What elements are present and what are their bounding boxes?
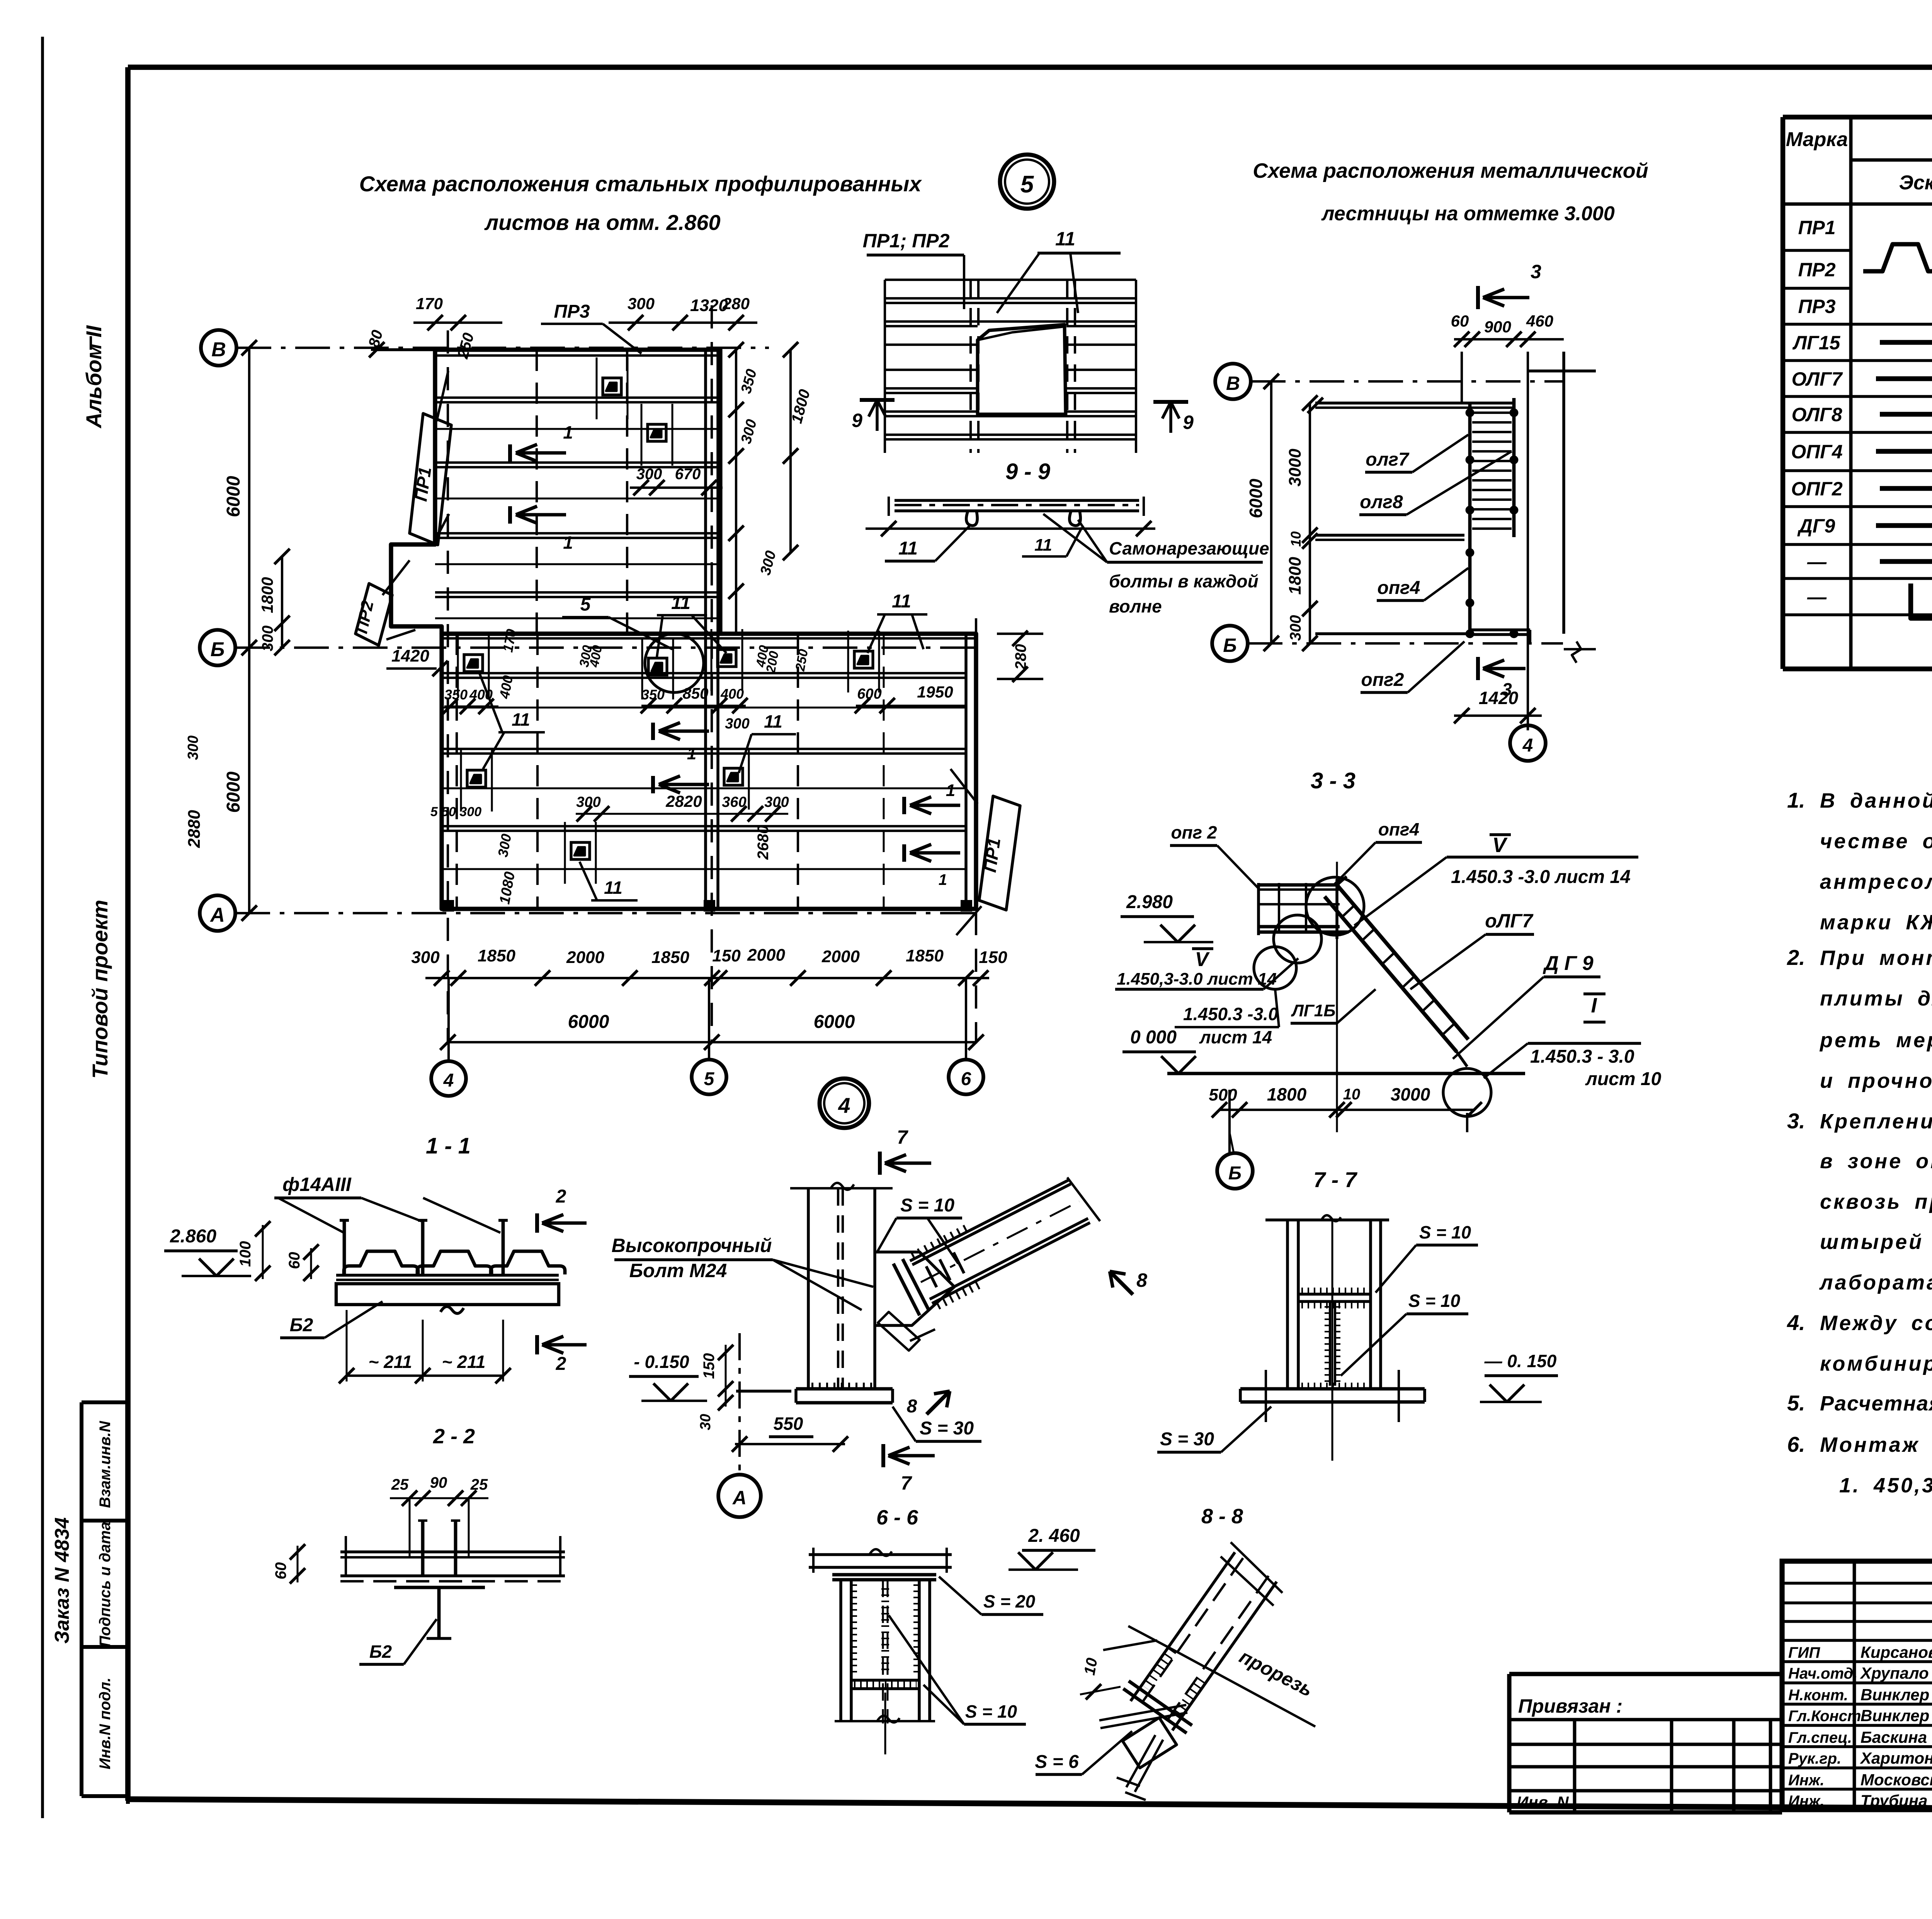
label 11 with leaders (detail5) [997,228,1121,313]
bottom dim chain of plan [411,946,1007,986]
upper plan top edge double [377,350,720,356]
svg-text:1.450.3 -3.0: 1.450.3 -3.0 [1183,1004,1278,1024]
stairs top dims 60 900 460 [1451,312,1564,347]
svg-text:Между собой / вдоль го: Между собой / вдоль гофра/ настилы соеди… [1820,1312,1932,1335]
title line 2 [484,210,720,235]
stairs axis line В [1251,380,1563,383]
column bubbles 4 5 6 [431,978,466,1096]
title block outer [1782,1561,1932,1810]
label 11 top of lower plan [657,593,726,657]
label опг2 [1361,641,1464,692]
label 11 right top of lower plan [867,591,927,653]
svg-text:Н.конт.: Н.конт. [1788,1687,1848,1704]
margin stamp boxes [82,1402,128,1804]
svg-text:60: 60 [1451,312,1469,330]
stairs column bubble 4 [1510,725,1546,761]
svg-text:Баскина: Баскина [1861,1728,1927,1746]
svg-text:сквозь профнастил „ втавр ": сквозь профнастил „ втавр " анкерных шты… [1820,1190,1932,1213]
svg-text:9 - 9: 9 - 9 [1005,459,1050,484]
table column марка values [1791,217,1843,608]
svg-text:1.450.3 - 3.0: 1.450.3 - 3.0 [1530,1046,1634,1067]
ПР1 parallelogram label upper [410,371,451,545]
svg-text:Б: Б [1223,635,1236,656]
svg-text:500: 500 [1209,1085,1237,1104]
left dim chain 6000/6000 [223,340,257,921]
7-7 S=30 label [1157,1407,1271,1452]
svg-text:6000: 6000 [1246,478,1266,518]
svg-text:антресоли, которая разраб: антресоли, которая разработана в чертежа… [1820,870,1932,893]
3-3 stair stringer [1325,876,1468,1067]
svg-text:6.: 6. [1787,1432,1805,1456]
node4 elevation -0.150 [629,1352,707,1401]
svg-text:300: 300 [185,735,201,760]
6-6 S=10 label [889,1615,1026,1724]
1-1 Б2 label [280,1301,383,1338]
node4 base plate [736,1387,893,1403]
label олг7 [1365,435,1468,472]
svg-text:ЛГ1Б: ЛГ1Б [1291,1001,1336,1020]
8-8 прорезь label [1128,1626,1316,1727]
svg-text:ОЛГ7: ОЛГ7 [1791,368,1843,390]
svg-text:2820: 2820 [665,792,702,810]
svg-text:1850: 1850 [478,946,515,965]
svg-text:Инв.N подл.: Инв.N подл. [97,1677,114,1769]
sheet outer trim line (left) [41,37,44,1818]
svg-text:1: 1 [563,532,573,553]
margin label Заказ № 4834 [51,1517,73,1643]
svg-text:Марка: Марка [1786,128,1848,151]
stairs dim chain 3000/10/1800/300 [1286,395,1318,651]
svg-text:реть мероприятия обеспечив: реть мероприятия обеспечивающие ее устой… [1819,1029,1932,1052]
node4 8 arrows [1110,1269,1147,1295]
svg-text:Самонарезающие: Самонарезающие [1109,538,1269,558]
node4 dim 150 30 [697,1345,733,1430]
svg-text:опг2: опг2 [1361,670,1404,690]
svg-text:штырей осуществляется свар: штырей осуществляется сварочным пистолет… [1820,1230,1932,1254]
3-3 detail circles [1254,877,1364,989]
upper plan sheet joint dashed verticals [537,350,627,634]
8-8 S=6 label [1035,1731,1132,1774]
svg-text:Эскиз: Эскиз [1899,172,1932,194]
axis circle В [201,330,236,366]
svg-text:1850: 1850 [906,946,944,965]
svg-text:Гл.спец.: Гл.спец. [1788,1729,1852,1746]
svg-text:1: 1 [939,871,947,888]
label 11 under beam [1022,527,1082,556]
upper plan outline [391,350,720,634]
svg-text:11: 11 [764,711,782,732]
2-2 dim 60 [272,1544,305,1584]
svg-text:3 - 3: 3 - 3 [1311,768,1355,793]
svg-text:В: В [1226,373,1240,394]
svg-text:5.: 5. [1787,1391,1805,1415]
node4 S=10 label [877,1195,962,1264]
svg-text:Монтаж металлических лестни: Монтаж металлических лестниц выполнять п… [1820,1433,1932,1456]
svg-text:Винклер: Винклер [1861,1706,1929,1725]
stairs left dim 6000 [1246,374,1279,651]
upper plan beam line at col5 [706,350,718,634]
svg-text:170: 170 [416,294,443,313]
svg-text:60: 60 [286,1252,303,1269]
svg-text:V: V [1195,948,1210,971]
stairs section mark 3 bottom [1478,657,1526,699]
svg-text:лист 10: лист 10 [1585,1069,1662,1089]
svg-text:1: 1 [946,781,955,800]
node4 section mark 7 top [880,1126,931,1175]
svg-text:60: 60 [272,1562,289,1580]
8-8 dim 10 [1080,1640,1157,1700]
lower plan outline [442,634,976,909]
svg-text:S = 10: S = 10 [1419,1222,1471,1242]
ПР3 label [541,301,641,354]
svg-text:Б2: Б2 [290,1315,313,1335]
2-2 Б2 label [359,1619,437,1664]
node4 section mark 7 bottom [883,1444,935,1494]
svg-text:850: 850 [683,685,709,702]
lower plan sheet joint dashed verticals [457,634,884,909]
svg-text:ДГ9: ДГ9 [1797,515,1835,537]
svg-text:9: 9 [1183,412,1194,433]
ПР2 parallelogram label [352,560,415,645]
label ПР1;ПР2 [863,230,964,309]
svg-text:150: 150 [701,1353,718,1379]
axis line А [235,912,981,914]
lower plan right edge double [964,634,968,909]
label 2-2 [433,1425,475,1448]
svg-text:1: 1 [563,422,573,442]
svg-text:25: 25 [470,1476,488,1493]
svg-text:Подпись и дата: Подпись и дата [97,1522,114,1647]
svg-text:S = 10: S = 10 [900,1195,954,1216]
svg-text:1. 450,3-3 выпускам 0 и 2: 1. 450,3-3 выпускам 0 и 2 части I , II [1839,1474,1932,1497]
stairs section mark 3 top [1478,261,1541,309]
svg-text:При монтаже профнастила и: При монтаже профнастила и устройстве мон… [1820,946,1932,970]
svg-text:1.450.3 -3.0 лист 14: 1.450.3 -3.0 лист 14 [1451,867,1631,887]
margin label Подпись и дата [97,1522,114,1647]
3-3 опг2 label [1170,822,1259,889]
svg-text:300: 300 [725,716,749,732]
svg-text:честве опалубки для монолит: честве опалубки для монолитной плиты пер… [1820,830,1932,853]
stairs dim 1420 [1454,688,1542,723]
dim 300 670 inside plan [630,466,723,495]
left dim 2880 [185,735,204,848]
svg-text:ПР3: ПР3 [554,301,590,322]
svg-text:—: — [1807,586,1827,608]
title line 2 [1321,202,1615,225]
svg-text:6 - 6: 6 - 6 [876,1506,918,1529]
svg-text:6000: 6000 [223,476,244,517]
label 11 leader left [885,526,970,561]
1-1 elevation 2.860 [164,1226,251,1276]
table эскиз: bar lines rows 4-10 [1876,342,1932,561]
stairs right break mark [1564,641,1596,663]
column axis 5 (dashed) [711,305,713,1043]
3-3 ЛГ15 label [1291,989,1376,1023]
3-3 bottom circle [1443,1068,1491,1116]
svg-text:плиты для консольной части: плиты для консольной части профнастила, … [1820,987,1932,1010]
title: схема расположения металлической лестницы line 1 [1253,159,1648,182]
svg-text:11: 11 [898,538,918,559]
1-1 profiled sheet section [336,1220,565,1313]
1-1 dim 100 60 [237,1221,319,1281]
svg-text:6: 6 [961,1069,971,1089]
svg-text:1950: 1950 [917,683,953,701]
svg-text:олг7: олг7 [1366,449,1410,470]
svg-text:Д Г 9: Д Г 9 [1543,952,1593,975]
svg-text:комбинированными заклепками: комбинированными заклепками по ОСТ 34- 1… [1820,1352,1932,1375]
stairs dots [1466,409,1517,637]
3-3 platform [1259,879,1349,939]
svg-text:Крепление и аннеровку про: Крепление и аннеровку профнастила произв… [1820,1110,1932,1133]
svg-text:6000: 6000 [814,1012,855,1032]
3-3 elevation 0.000 [1122,1027,1196,1073]
section marks 1 in upper plan [510,422,573,462]
svg-text:1800: 1800 [258,577,276,613]
svg-text:2880: 2880 [185,810,204,848]
margin label Взам. инв.№ [97,1421,114,1508]
lower plan top edge double [442,637,976,640]
svg-text:S = 10: S = 10 [1408,1291,1461,1311]
svg-text:150: 150 [712,946,741,965]
svg-text:олг8: олг8 [1360,492,1403,512]
column base squares [444,901,971,910]
detail 5 plan grid [885,280,1136,453]
svg-text:2000: 2000 [566,948,604,967]
svg-text:300: 300 [411,948,440,967]
svg-text:10: 10 [1081,1657,1101,1676]
svg-text:Гл.Конст.: Гл.Конст. [1788,1708,1865,1725]
label 1-1 [426,1133,471,1159]
label 11 bottom [580,862,638,900]
stairs axis line Б [1248,642,1563,645]
svg-text:ОЛГ8: ОЛГ8 [1791,404,1842,425]
svg-text:1 - 1: 1 - 1 [426,1133,471,1159]
svg-text:2000: 2000 [821,947,860,966]
axis circle А [200,895,235,931]
svg-text:Болт М24: Болт М24 [629,1260,727,1281]
stairs axis circle Б [1212,626,1248,661]
svg-text:2680: 2680 [755,825,772,860]
svg-text:1420: 1420 [1479,688,1519,708]
svg-text:болты в каждой: болты в каждой [1109,571,1259,591]
svg-text:S = 20: S = 20 [983,1591,1036,1611]
svg-text:Взам.инв.N: Взам.инв.N [97,1421,114,1508]
svg-text:2000: 2000 [747,946,785,965]
svg-text:лаборатарии НИИЖБ.: лаборатарии НИИЖБ. [1819,1271,1932,1294]
svg-text:11: 11 [1034,536,1052,555]
margin label Альбом II [82,325,106,429]
section marks 1 in lower plan [653,723,709,763]
svg-text:~ 211: ~ 211 [369,1352,412,1372]
svg-text:11: 11 [671,593,690,613]
label 11 left mid [479,672,545,769]
svg-text:Харитонов: Харитонов [1860,1749,1932,1767]
svg-text:5: 5 [704,1069,715,1089]
dim 1420 left of lower plan [386,646,448,676]
svg-text:~ 211: ~ 211 [442,1352,486,1372]
svg-text:3.: 3. [1787,1109,1805,1133]
3-3 dim chain 500 1800 10 3000 [1209,862,1482,1155]
svg-text:Б: Б [1228,1163,1242,1184]
svg-text:ОПГ2: ОПГ2 [1791,478,1843,500]
8-8 diagonal member [1099,1542,1282,1800]
svg-text:670: 670 [675,466,701,483]
svg-text:опг 2: опг 2 [1171,822,1217,842]
svg-text:280: 280 [722,294,750,313]
axis circle Б [200,630,235,665]
lower plan seam lines [442,673,966,869]
stairs treads [1472,413,1512,529]
label 11 mid [739,711,796,773]
svg-text:2: 2 [556,1186,566,1207]
svg-text:А: А [209,904,225,926]
svg-text:6000: 6000 [568,1012,609,1032]
svg-text:лестницы на отметке 3.000: лестницы на отметке 3.000 [1321,202,1615,225]
svg-text:300: 300 [259,626,276,652]
section arrows 9 [852,400,895,431]
svg-text:5: 5 [1020,171,1034,198]
7-7 -0.150 elevation [1480,1351,1558,1402]
plan top dims [365,294,757,361]
svg-text:2 - 2: 2 - 2 [433,1425,475,1448]
svg-text:V: V [1492,834,1508,857]
svg-text:S = 10: S = 10 [965,1701,1017,1722]
svg-text:опг4: опг4 [1378,819,1419,839]
7-7 column drawing [1240,1215,1425,1461]
label олг8 [1359,451,1512,515]
svg-text:ПР2: ПР2 [1798,259,1835,281]
svg-text:Альбом II: Альбом II [82,325,106,429]
svg-text:2. 460: 2. 460 [1028,1526,1080,1546]
svg-text:1800: 1800 [1286,557,1304,595]
label 8-8 [1201,1505,1243,1528]
node4 axis to bubble А [718,1333,761,1517]
svg-text:Высокопрочный: Высокопрочный [612,1235,772,1256]
table headers [1786,126,1932,206]
svg-text:марки КЖ.: марки КЖ. [1820,911,1932,934]
svg-text:300: 300 [636,466,662,483]
svg-text:100: 100 [237,1241,254,1267]
label 5 with leader [562,594,672,649]
node 4 big bubble [820,1079,869,1128]
svg-text:10: 10 [1343,1086,1361,1103]
svg-text:Трубина: Трубина [1861,1791,1927,1810]
svg-text:7: 7 [897,1126,908,1148]
svg-text:1: 1 [687,744,696,763]
svg-text:5 50 300: 5 50 300 [430,805,481,819]
svg-text:4.: 4. [1787,1310,1805,1335]
svg-text:1800: 1800 [1267,1084,1307,1104]
1-1 dims ~211 [339,1310,511,1383]
right vertical dims of upper plan [728,342,813,634]
axis line В [236,347,769,349]
table эскиз: angle L sketch row 11 [1911,584,1932,618]
svg-text:90: 90 [430,1474,447,1491]
svg-text:11: 11 [1055,228,1075,250]
3-3 ДГ9 label [1453,952,1600,1059]
привязан table [1509,1674,1782,1812]
label 3-3 [1311,768,1355,793]
svg-text:ОПГ4: ОПГ4 [1791,441,1842,463]
svg-text:3: 3 [1531,261,1541,282]
svg-text:8: 8 [907,1396,917,1417]
svg-text:и прочность во время бетон: и прочность во время бетонирования. [1820,1069,1932,1092]
svg-text:3000: 3000 [1286,449,1304,487]
svg-text:30: 30 [697,1414,714,1430]
svg-text:— 0. 150: — 0. 150 [1484,1351,1557,1371]
3-3 ref 1.450.3-3.0 лист 14 lower [1175,989,1279,1047]
svg-text:5: 5 [580,594,591,615]
1-1 label ф14АIII [274,1174,500,1233]
svg-text:460: 460 [1526,312,1553,330]
7-7 S=10 labels [1376,1222,1478,1293]
node4 column [790,1183,893,1389]
3-3 elevation 2.980 [1121,892,1213,942]
svg-text:7: 7 [901,1472,912,1494]
svg-text:6000: 6000 [223,771,244,813]
stairs vertical line x=4047 lower [1563,352,1565,381]
detail bubble 5 [1000,155,1054,209]
3-3 олг7 label [1410,910,1534,989]
2-2 sheet and beam [340,1521,565,1638]
svg-text:4: 4 [838,1093,850,1118]
svg-text:Б: Б [211,638,225,661]
svg-text:3000: 3000 [1391,1084,1430,1104]
svg-text:ПР3: ПР3 [1798,296,1835,317]
svg-text:Схема расположения стальных пр: Схема расположения стальных профилирован… [359,172,923,196]
svg-text:ПР1; ПР2: ПР1; ПР2 [863,230,950,252]
6-6 2.460 elevation [1009,1526,1095,1570]
node4 высокопрочный болт label [612,1235,873,1310]
lower plan inner dims row (350 400 etc) [430,628,1043,906]
svg-text:300: 300 [1287,615,1304,641]
svg-text:2: 2 [556,1354,566,1374]
svg-text:550: 550 [774,1414,803,1434]
svg-text:25: 25 [391,1476,409,1493]
svg-text:Инж.: Инж. [1788,1772,1825,1789]
section 9-9 beam [866,497,1155,536]
svg-text:волне: волне [1109,596,1162,616]
svg-text:S = 30: S = 30 [1160,1429,1214,1449]
svg-text:2.: 2. [1787,945,1805,970]
stairs plan walls [1308,352,1596,730]
svg-text:9: 9 [852,410,862,431]
svg-text:8: 8 [1136,1269,1147,1291]
svg-text:10: 10 [1288,531,1304,547]
text самонарезающие болты [1043,514,1269,616]
3-3 V ref top [1354,834,1638,925]
column axis 6 (dashed) [975,618,977,1043]
2-2 dims 25 90 25 [390,1474,488,1557]
title: схема расположения стальных профилированных листов line 1 [359,172,923,196]
axis line Б [235,646,981,649]
6-6 drawing [809,1548,952,1754]
svg-text:- 0.150: - 0.150 [634,1352,689,1372]
svg-text:оЛГ7: оЛГ7 [1485,910,1534,932]
label опг4 [1377,568,1468,601]
svg-text:2.980: 2.980 [1126,892,1173,912]
label 6-6 [876,1506,918,1529]
svg-text:7 - 7: 7 - 7 [1313,1167,1358,1192]
svg-text:ГИП: ГИП [1788,1644,1820,1661]
svg-text:2.860: 2.860 [170,1226,216,1247]
svg-text:Инв. N: Инв. N [1517,1793,1569,1811]
svg-text:I: I [1591,994,1597,1017]
upper plan seam lines [435,398,720,618]
svg-text:Инж.: Инж. [1788,1793,1825,1810]
svg-text:А: А [732,1487,747,1509]
svg-text:11: 11 [604,878,622,898]
